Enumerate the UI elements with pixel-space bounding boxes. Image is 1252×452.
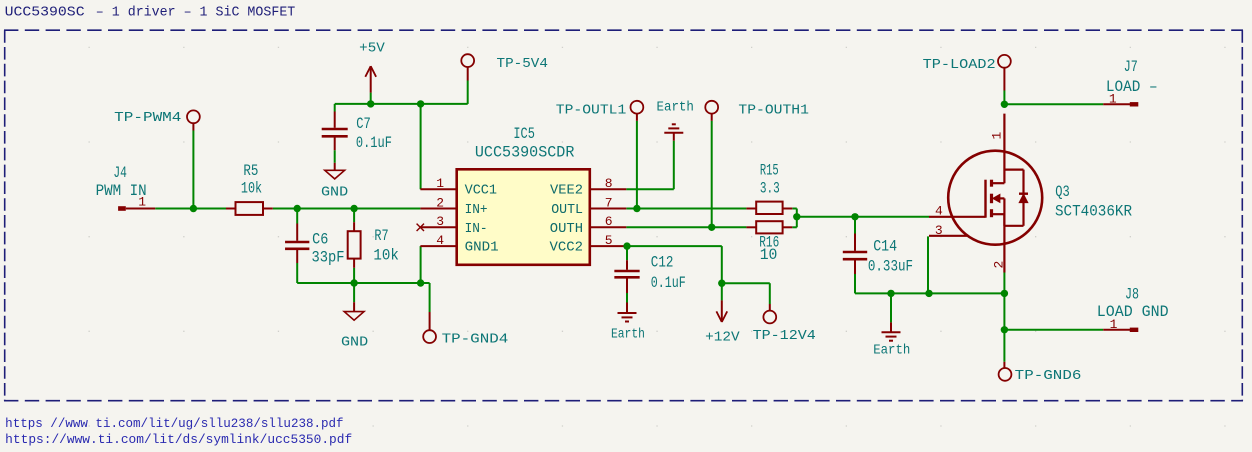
svg-text:3.3: 3.3 <box>760 180 780 198</box>
svg-text:0.1uF: 0.1uF <box>651 274 686 292</box>
svg-text:TP-LOAD2: TP-LOAD2 <box>923 57 996 73</box>
svg-text:0.1uF: 0.1uF <box>356 134 392 152</box>
svg-text:1: 1 <box>1109 92 1117 107</box>
svg-text:IC5: IC5 <box>513 125 535 143</box>
svg-text:https //www ti.com/lit/ug/sllu: https //www ti.com/lit/ug/sllu238/sllu23… <box>5 417 343 431</box>
svg-text:VEE2: VEE2 <box>550 183 583 199</box>
svg-text:33pF: 33pF <box>312 248 345 266</box>
svg-text:Q3: Q3 <box>1055 183 1070 201</box>
svg-text:2: 2 <box>992 261 1007 269</box>
svg-text:GND: GND <box>321 184 348 200</box>
svg-text:UCC5390SCDR: UCC5390SCDR <box>475 144 575 162</box>
svg-text:SCT4036KR: SCT4036KR <box>1055 203 1132 221</box>
svg-text:R5: R5 <box>243 162 258 180</box>
svg-text:1: 1 <box>436 176 444 191</box>
svg-text:TP-OUTH1: TP-OUTH1 <box>738 103 809 119</box>
svg-text:3: 3 <box>935 223 943 238</box>
svg-text:3: 3 <box>436 214 444 229</box>
svg-text:R7: R7 <box>374 227 388 245</box>
svg-text:GND: GND <box>341 334 368 350</box>
svg-text:– 1 driver – 1 SiC MOSFET: – 1 driver – 1 SiC MOSFET <box>96 5 295 20</box>
svg-text:1: 1 <box>138 195 146 210</box>
svg-text:GND1: GND1 <box>465 240 499 256</box>
svg-text:TP-PWM4: TP-PWM4 <box>114 110 181 126</box>
svg-text:4: 4 <box>436 233 444 248</box>
svg-text:TP-GND6: TP-GND6 <box>1015 368 1082 384</box>
svg-text:TP-5V4: TP-5V4 <box>497 56 548 72</box>
svg-text:OUTL: OUTL <box>551 202 583 218</box>
svg-text:1: 1 <box>1110 317 1118 332</box>
svg-text:C6: C6 <box>312 230 328 248</box>
svg-text:OUTH: OUTH <box>550 221 583 237</box>
svg-text:5: 5 <box>605 233 613 248</box>
svg-text:VCC2: VCC2 <box>550 240 584 256</box>
svg-text:+12V: +12V <box>705 330 740 346</box>
svg-text:J7: J7 <box>1124 58 1138 76</box>
svg-text:TP-12V4: TP-12V4 <box>753 328 816 344</box>
svg-text:TP-OUTL1: TP-OUTL1 <box>556 103 627 119</box>
svg-text:TP-GND4: TP-GND4 <box>442 331 509 347</box>
svg-text:+5V: +5V <box>359 41 385 57</box>
svg-text:VCC1: VCC1 <box>465 183 497 199</box>
svg-text:1: 1 <box>990 132 1005 140</box>
svg-text:J4: J4 <box>113 164 127 182</box>
svg-text:LOAD GND: LOAD GND <box>1097 303 1169 321</box>
svg-text:C14: C14 <box>873 238 897 256</box>
svg-text:4: 4 <box>935 203 943 218</box>
svg-text:Earth: Earth <box>611 326 645 342</box>
svg-text:Earth: Earth <box>657 99 694 115</box>
svg-text:IN+: IN+ <box>465 202 488 218</box>
svg-text:10: 10 <box>760 246 778 264</box>
svg-text:J8: J8 <box>1125 286 1139 304</box>
svg-text:UCC5390SC: UCC5390SC <box>5 5 85 20</box>
svg-text:https://www.ti.com/lit/ds/syml: https://www.ti.com/lit/ds/symlink/ucc535… <box>5 433 352 447</box>
svg-text:10k: 10k <box>241 180 262 198</box>
svg-text:IN-: IN- <box>465 221 488 237</box>
svg-text:C7: C7 <box>356 115 371 133</box>
svg-text:2: 2 <box>436 195 444 210</box>
svg-text:0.33uF: 0.33uF <box>868 258 913 276</box>
svg-text:10k: 10k <box>373 247 399 265</box>
svg-text:C12: C12 <box>651 254 674 272</box>
svg-text:Earth: Earth <box>873 343 910 359</box>
svg-text:R15: R15 <box>760 162 779 180</box>
svg-text:8: 8 <box>605 176 613 191</box>
svg-text:7: 7 <box>605 195 613 210</box>
svg-text:6: 6 <box>605 214 613 229</box>
